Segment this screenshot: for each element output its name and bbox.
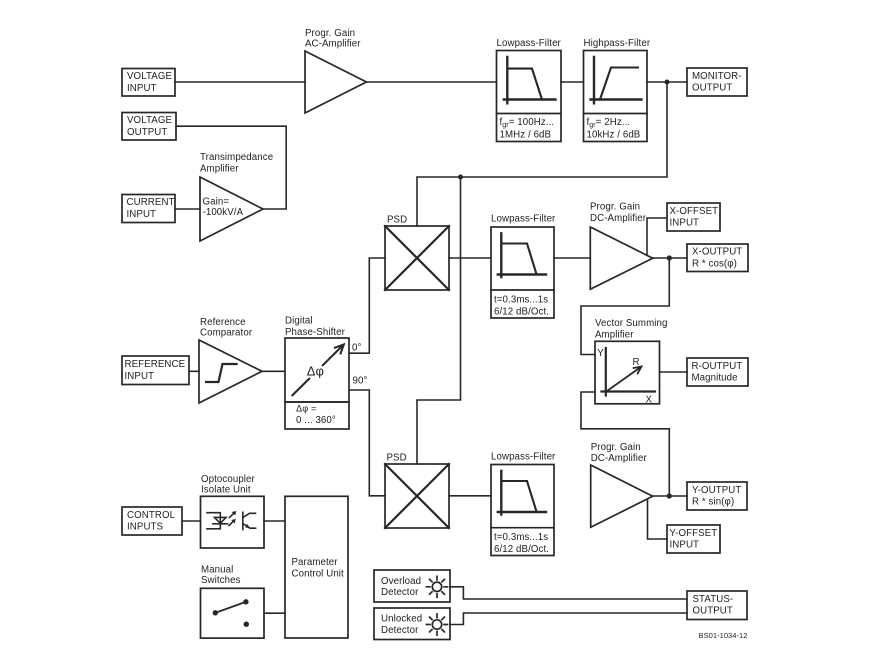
svg-text:Δφ =: Δφ = — [296, 404, 316, 414]
box CONTROL INPUTS — [122, 507, 182, 535]
wire Y DC-amplifier to Y-output — [653, 495, 687, 497]
svg-text:OUTPUT: OUTPUT — [127, 127, 167, 138]
wire overload detector to status output — [450, 587, 687, 599]
wire X lowpass to X DC-amplifier — [554, 257, 590, 259]
phase shifter arrow — [292, 345, 343, 396]
svg-text:Phase-Shifter: Phase-Shifter — [285, 327, 346, 338]
graph Y lowpass filter — [498, 471, 546, 515]
wire monitor node down and left to PSD — [417, 82, 667, 226]
svg-text:Lowpass-Filter: Lowpass-Filter — [491, 451, 556, 462]
svg-text:R * cos(φ): R * cos(φ) — [692, 258, 737, 269]
svg-text:fgr= 100Hz...: fgr= 100Hz... — [500, 117, 555, 129]
box VOLTAGE OUTPUT — [122, 113, 176, 141]
amplifier transimpedance triangle — [200, 177, 263, 241]
lamp icon overload — [427, 576, 448, 597]
svg-text:1MHz / 6dB: 1MHz / 6dB — [500, 130, 552, 141]
svg-text:INPUT: INPUT — [670, 540, 700, 551]
svg-text:90°: 90° — [353, 376, 368, 387]
svg-text:Reference: Reference — [200, 317, 246, 328]
svg-text:X: X — [646, 394, 653, 405]
box digital phase shifter — [285, 338, 349, 402]
wire 0 degree output to upper PSD — [349, 258, 385, 353]
svg-text:Y-OFFSET: Y-OFFSET — [670, 528, 718, 539]
wire vector summing X input to Y node — [581, 392, 669, 496]
svg-text:OUTPUT: OUTPUT — [692, 83, 732, 94]
svg-text:fgr= 2Hz...: fgr= 2Hz... — [587, 117, 631, 129]
wire current input to transimpedance amplifier — [175, 208, 200, 210]
wire X-offset input to X DC-amplifier — [647, 218, 667, 255]
svg-text:Isolate Unit: Isolate Unit — [201, 485, 251, 496]
comparator step symbol — [206, 364, 237, 382]
junction X output node — [667, 255, 672, 260]
svg-text:Optocoupler: Optocoupler — [201, 474, 256, 485]
box parameter control unit — [285, 496, 348, 638]
svg-text:Y: Y — [597, 348, 604, 359]
junction reference distribution node — [458, 175, 463, 180]
svg-text:Lowpass-Filter: Lowpass-Filter — [491, 213, 556, 224]
svg-text:Switches: Switches — [201, 575, 241, 586]
graph lowpass filter top — [504, 57, 556, 103]
svg-text:Amplifier: Amplifier — [200, 164, 239, 175]
PSD lower cross — [385, 464, 449, 528]
box highpass filter — [584, 51, 648, 142]
box X-OFFSET INPUT — [667, 203, 720, 231]
vector summing R arrow — [607, 367, 642, 392]
svg-text:R-OUTPUT: R-OUTPUT — [692, 361, 743, 372]
box PSD upper — [385, 226, 449, 290]
svg-text:Progr. Gain: Progr. Gain — [590, 202, 640, 213]
svg-text:Gain=: Gain= — [203, 196, 230, 207]
svg-text:BS01-1034-12: BS01-1034-12 — [699, 631, 748, 640]
vector summing axes — [602, 348, 656, 396]
box R-OUTPUT — [687, 358, 748, 386]
wire voltage input to AC amplifier — [175, 81, 305, 83]
svg-text:0°: 0° — [352, 343, 361, 354]
box Y-OFFSET INPUT — [667, 525, 720, 553]
box VOLTAGE INPUT — [122, 69, 175, 97]
wire unlocked detector to status output — [450, 613, 687, 625]
svg-text:INPUTS: INPUTS — [127, 522, 164, 533]
svg-text:Parameter: Parameter — [292, 557, 339, 568]
svg-text:Progr. Gain: Progr. Gain — [305, 28, 355, 39]
wire control inputs to optocoupler — [182, 520, 201, 522]
wire 90 degree output to lower PSD — [349, 390, 385, 496]
svg-text:Magnitude: Magnitude — [692, 373, 738, 384]
svg-text:Vector Summing: Vector Summing — [595, 318, 667, 329]
svg-text:Δφ: Δφ — [307, 363, 324, 378]
svg-text:Digital: Digital — [285, 316, 313, 327]
svg-text:X-OUTPUT: X-OUTPUT — [692, 247, 742, 258]
box vector summing amplifier — [595, 341, 660, 404]
svg-text:Highpass-Filter: Highpass-Filter — [584, 38, 651, 49]
PSD upper cross — [385, 226, 449, 290]
box lowpass filter top — [497, 51, 562, 142]
svg-text:INPUT: INPUT — [670, 218, 700, 229]
svg-text:CONTROL: CONTROL — [127, 510, 176, 521]
svg-text:STATUS-: STATUS- — [693, 594, 734, 605]
box unlocked detector — [374, 608, 450, 640]
svg-text:0 ... 360°: 0 ... 360° — [296, 415, 336, 426]
svg-text:6/12 dB/Oct.: 6/12 dB/Oct. — [494, 307, 549, 318]
svg-text:REFERENCE: REFERENCE — [125, 359, 186, 370]
wire optocoupler to parameter control unit — [264, 520, 285, 522]
wire lowpass to highpass — [561, 81, 584, 83]
box Y lowpass filter — [491, 465, 554, 556]
svg-text:INPUT: INPUT — [127, 83, 157, 94]
svg-text:AC-Amplifier: AC-Amplifier — [305, 39, 361, 50]
box X lowpass filter — [491, 227, 554, 318]
svg-text:6/12 dB/Oct.: 6/12 dB/Oct. — [494, 544, 549, 555]
wire highpass to monitor output — [647, 81, 687, 83]
box Y-OUTPUT — [687, 482, 747, 510]
svg-text:OUTPUT: OUTPUT — [693, 606, 733, 617]
svg-text:MONITOR-: MONITOR- — [692, 71, 742, 82]
amplifier Y DC triangle — [591, 465, 653, 527]
svg-text:CURRENT: CURRENT — [127, 197, 175, 208]
svg-text:Lowpass-Filter: Lowpass-Filter — [497, 38, 562, 49]
box optocoupler isolate unit — [201, 496, 265, 548]
svg-text:VOLTAGE: VOLTAGE — [127, 71, 172, 82]
graph X lowpass filter — [498, 233, 546, 277]
box X-OUTPUT — [687, 244, 748, 272]
svg-text:Overload: Overload — [381, 576, 421, 587]
box overload detector — [374, 570, 450, 602]
wire manual switches to parameter control unit — [264, 612, 285, 614]
wire reference signal node down with jog to lower PSD — [417, 177, 461, 464]
amplifier X DC triangle — [590, 227, 652, 289]
box REFERENCE INPUT — [122, 356, 189, 385]
junction monitor node — [665, 80, 670, 85]
box phase shifter value — [285, 402, 349, 429]
graph highpass filter — [591, 57, 642, 103]
svg-text:10kHz / 6dB: 10kHz / 6dB — [587, 130, 641, 141]
wire Y DC-amplifier to Y-offset input — [648, 500, 668, 539]
svg-text:R: R — [633, 357, 640, 368]
svg-text:VOLTAGE: VOLTAGE — [127, 115, 172, 126]
svg-text:INPUT: INPUT — [125, 371, 155, 382]
wire vector summing to R-output — [660, 371, 688, 373]
wire PSD to X lowpass — [449, 257, 491, 259]
junction Y output node — [667, 493, 672, 498]
comparator reference triangle — [199, 340, 262, 403]
svg-text:Detector: Detector — [381, 587, 419, 598]
wire reference input to comparator — [189, 370, 199, 372]
svg-text:INPUT: INPUT — [127, 209, 157, 220]
svg-text:Transimpedance: Transimpedance — [200, 152, 273, 163]
svg-text:t=0.3ms...1s: t=0.3ms...1s — [494, 294, 548, 305]
svg-text:X-OFFSET: X-OFFSET — [670, 206, 719, 217]
svg-text:PSD: PSD — [387, 453, 407, 464]
svg-text:Comparator: Comparator — [200, 327, 253, 338]
svg-text:DC-Amplifier: DC-Amplifier — [590, 213, 647, 224]
wire X DC-amplifier to X-output — [653, 257, 687, 259]
svg-text:Manual: Manual — [201, 565, 233, 576]
svg-text:Detector: Detector — [381, 625, 419, 636]
wire comparator to phase shifter — [262, 370, 285, 372]
svg-text:Control Unit: Control Unit — [292, 568, 345, 579]
box MONITOR-OUTPUT — [687, 68, 747, 96]
svg-text:R * sin(φ): R * sin(φ) — [692, 497, 734, 508]
amplifier AC triangle — [305, 51, 366, 113]
box CURRENT INPUT — [122, 195, 175, 223]
svg-text:Amplifier: Amplifier — [595, 329, 634, 340]
svg-text:Progr. Gain: Progr. Gain — [591, 442, 641, 453]
wire lower PSD to Y lowpass — [449, 495, 491, 497]
box manual switches — [201, 588, 265, 638]
lamp icon unlocked — [427, 614, 448, 635]
svg-text:Y-OUTPUT: Y-OUTPUT — [692, 485, 741, 496]
wire AC amplifier to lowpass filter — [366, 81, 496, 83]
wire X node to vector summing Y input — [581, 258, 669, 355]
manual switch symbol — [213, 599, 249, 627]
svg-text:PSD: PSD — [387, 215, 407, 226]
optocoupler symbol — [207, 512, 256, 529]
box PSD lower — [385, 464, 449, 528]
svg-text:Unlocked: Unlocked — [381, 614, 422, 625]
svg-text:-100kV/A: -100kV/A — [203, 207, 244, 218]
svg-text:DC-Amplifier: DC-Amplifier — [591, 453, 648, 464]
box STATUS-OUTPUT — [687, 591, 747, 620]
wire transimpedance amplifier to voltage output — [176, 126, 286, 209]
svg-text:t=0.3ms...1s: t=0.3ms...1s — [494, 532, 548, 543]
